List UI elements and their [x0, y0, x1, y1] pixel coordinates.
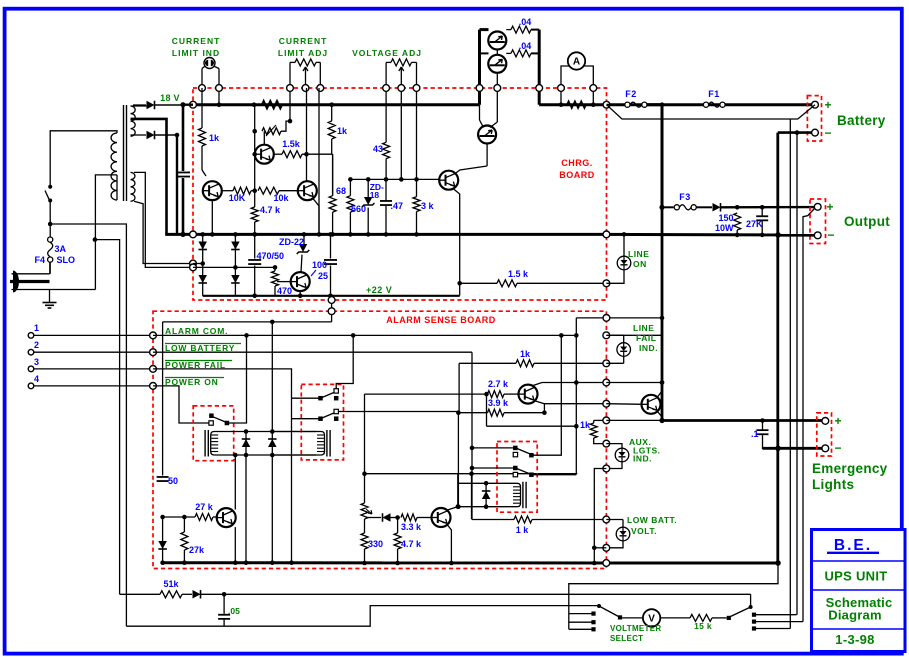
fuse F3: [662, 206, 674, 208]
voltmeter select left switch: [569, 613, 592, 615]
svg-text:51k: 51k: [163, 579, 179, 589]
input terminal 2: [28, 349, 34, 355]
svg-text:A: A: [573, 57, 580, 68]
Q5 emitter to bottom rail: [299, 291, 301, 296]
junction .1 cap: [760, 418, 765, 423]
node q11 collector edge: [603, 379, 610, 386]
transformer primary winding: [111, 133, 117, 200]
diode D13: [193, 590, 201, 599]
svg-text:.04: .04: [519, 17, 532, 27]
junction wiper-1.5k: [304, 152, 309, 157]
node ammeter right edge crossing: [590, 85, 597, 92]
wire cap bottom line: [126, 625, 224, 627]
diode D2 rectifier: [147, 131, 155, 140]
svg-text:LIMIT IND: LIMIT IND: [172, 48, 220, 58]
svg-text:4.7 k: 4.7 k: [401, 539, 422, 549]
wire line fail 1k: [458, 363, 460, 412]
node aux base edge: [603, 400, 610, 407]
wire pullup top line: [576, 317, 662, 319]
svg-text:1k: 1k: [337, 126, 348, 136]
resistor R 150 10W: [734, 213, 741, 230]
output terminal plus: [814, 203, 821, 210]
svg-text:F4: F4: [34, 255, 45, 265]
junction wiper node: [395, 515, 400, 520]
svg-text:15 k: 15 k: [694, 621, 712, 631]
secondary top lead to diode: [131, 105, 148, 107]
svg-text:B.E.: B.E.: [834, 537, 872, 554]
node rail at CHRG right edge: [603, 101, 610, 108]
resistor R 4.7k: [254, 191, 256, 207]
wire output plus sense: [803, 209, 815, 622]
junction k3 riser1: [559, 333, 564, 338]
junction Q3 base: [252, 152, 257, 157]
relay K3 coil: [522, 482, 524, 508]
junction K2 common rail: [289, 560, 294, 565]
svg-text:3A: 3A: [55, 244, 67, 254]
wire 1.5k line: [274, 153, 282, 155]
node +22V at ALARM top edge: [328, 308, 335, 315]
node aux1k bottom edge: [603, 440, 610, 447]
junction diode1 top: [244, 429, 249, 434]
node aux bottom edge: [603, 465, 610, 472]
pot right lead: [319, 62, 321, 88]
svg-text:1 k: 1 k: [516, 525, 530, 535]
emergency connector dashed box: [817, 413, 832, 456]
resistor series rail: [262, 101, 282, 108]
node input2 edge: [150, 349, 157, 356]
title block divider 1: [813, 560, 904, 562]
wire rail x254 down: [254, 105, 256, 191]
wire aux bus down: [661, 207, 664, 420]
resistor R 15k: [690, 614, 712, 621]
fuse F2: [607, 104, 625, 106]
capacitor C 27K: [761, 207, 763, 215]
transistor Q9 2N3055: [488, 55, 506, 73]
wire y426 line: [487, 425, 577, 427]
junction 560 rail: [348, 232, 353, 237]
svg-text:LOW BATT.: LOW BATT.: [627, 515, 677, 525]
junction route x364: [362, 471, 367, 476]
node lowbatt bottom edge: [603, 544, 610, 551]
junction aux return low batt: [592, 546, 597, 551]
resistor R 470: [274, 267, 276, 271]
transistor Q10 pass 2N3055: [478, 126, 496, 144]
junction bridge R top: [233, 232, 238, 237]
title block outer: [812, 530, 906, 652]
junction k3 coil bottom diode: [484, 504, 489, 509]
ammeter leads: [561, 66, 569, 105]
svg-text:18 V: 18 V: [160, 93, 180, 103]
svg-text:150: 150: [718, 213, 733, 223]
svg-text:+22 V: +22 V: [366, 285, 392, 295]
wire battery minus vertical bus: [776, 133, 779, 563]
ammeter A1: [568, 52, 585, 69]
junction pullup at main bus: [660, 316, 665, 321]
Q6 collector: [448, 474, 458, 510]
diode D3: [198, 242, 207, 250]
voltage adj wiper lead: [400, 76, 402, 179]
wire 3.9k to Q11 emitter: [504, 412, 544, 414]
pot left lead: [289, 62, 291, 121]
wire 18V riser thick: [478, 30, 481, 105]
transistor Q8 2N3055: [488, 32, 506, 50]
svg-text:+: +: [834, 414, 841, 428]
transistor Q12 aux: [606, 403, 641, 406]
primary bottom lead: [116, 175, 118, 200]
node input3 edge: [150, 366, 157, 373]
junction Q1 emitter rail: [210, 232, 215, 237]
wire x486 riser: [486, 394, 488, 426]
node vadj right at edge: [413, 85, 420, 92]
junction aux return rail: [592, 561, 597, 566]
resistor R 1k mid: [331, 105, 333, 121]
battery terminal minus: [812, 129, 819, 136]
svg-text:.05: .05: [228, 606, 240, 616]
node vadj left at edge: [383, 85, 390, 92]
junction 576-alarmcom: [574, 333, 579, 338]
capacitor C .1: [762, 421, 764, 430]
potentiometer voltage adj: [386, 61, 391, 63]
node 1.5k at board edge: [603, 280, 610, 287]
diode D11 input: [162, 517, 164, 563]
svg-text:2: 2: [34, 340, 39, 350]
diode D4: [198, 275, 207, 283]
svg-text:3: 3: [34, 357, 39, 367]
right blade: [731, 607, 751, 617]
wiper line: [368, 517, 381, 519]
junction 576-426: [574, 424, 579, 429]
resistor R 1.5k output: [460, 282, 497, 284]
junction 150 top: [735, 205, 740, 210]
ALARM SENSE board dashed outline: [153, 311, 606, 568]
ground symbol: [49, 290, 51, 303]
svg-text:LINE: LINE: [628, 249, 649, 259]
capacitor C3 100/25: [330, 234, 332, 258]
relay K3 dashed box: [497, 442, 537, 513]
svg-text:CURRENT: CURRENT: [172, 36, 221, 46]
resistor R 51k: [160, 591, 182, 598]
title block divider 2: [813, 589, 904, 591]
junction d11 rail: [160, 560, 165, 565]
relay K2 coil: [326, 430, 328, 457]
wire 3055 emitter bus down to rail: [538, 30, 541, 105]
junction F3 tap: [659, 205, 664, 210]
resistor .04 lower: [506, 52, 511, 54]
emergency terminal minus: [822, 445, 829, 452]
svg-text:SLO: SLO: [57, 255, 76, 265]
svg-text:−: −: [834, 441, 841, 455]
Q3 collector to trimmer line: [263, 131, 265, 145]
fuse F4: [49, 224, 51, 237]
wire low battery line: [153, 351, 163, 353]
node common rail at left edge: [190, 231, 197, 238]
svg-text:68: 68: [336, 186, 346, 196]
transformer T1 core: [123, 105, 125, 201]
node lamp left at edge: [199, 85, 206, 92]
trimmer resistor below rail: [262, 128, 281, 135]
resistor R 10k right: [258, 187, 279, 194]
transistor Q2: [298, 181, 317, 200]
wire battery sense diagonal from F2 node: [607, 105, 791, 119]
wire wiper down: [306, 88, 308, 154]
transistor Q6: [432, 508, 451, 527]
junction lamp-rail: [217, 102, 222, 107]
wire board rail to switch feed: [569, 563, 778, 629]
svg-text:330: 330: [368, 539, 383, 549]
resistor R 1k linefail: [516, 360, 534, 367]
Q11 emitter diagonal: [535, 401, 545, 404]
transistor Q7: [217, 508, 236, 527]
svg-text:LIMIT ADJ: LIMIT ADJ: [278, 48, 328, 58]
svg-text:−: −: [824, 126, 831, 140]
node common rail at right edge: [603, 231, 610, 238]
diode D9 relay2 clamp: [271, 322, 273, 563]
diode D6: [231, 275, 240, 283]
wire base line y179: [350, 178, 439, 180]
zener ZD-22: [302, 232, 307, 237]
wire 330 riser: [364, 474, 366, 503]
svg-text:F3: F3: [679, 192, 691, 202]
svg-text:CURRENT: CURRENT: [279, 36, 328, 46]
transistor Q11: [519, 385, 538, 404]
wire 51k line: [120, 593, 160, 595]
svg-text:−: −: [827, 228, 834, 242]
junction 3.9k line: [456, 410, 461, 415]
svg-text:25: 25: [318, 271, 328, 281]
output connector dashed box: [810, 199, 826, 244]
junction pot-right rail: [317, 232, 322, 237]
junction relay1 riser: [244, 333, 249, 338]
svg-text:3 k: 3 k: [421, 201, 435, 211]
junction trimmer left: [252, 129, 257, 134]
svg-text:10W: 10W: [715, 223, 734, 233]
junction rail-shunt left: [559, 102, 564, 107]
transistor Q1: [203, 181, 222, 200]
Q12 collector: [658, 391, 663, 397]
junction emergency minus bus: [775, 446, 781, 452]
Q1 emitter down to rail: [211, 200, 213, 234]
wire coil bottom line y454: [246, 454, 316, 456]
junction 18V node: [180, 102, 185, 107]
svg-text:V: V: [648, 614, 655, 625]
wire relay1 common up to alarm com: [229, 335, 247, 423]
wire 1k to 68 resistor: [332, 154, 334, 196]
node +22V at CHRG bottom edge: [328, 297, 335, 304]
junction main bus: [660, 102, 665, 107]
diode D12: [383, 513, 391, 522]
wire diode2 down to common: [176, 135, 178, 234]
bridge rectifier branch right: [234, 234, 236, 295]
junction zd18 rail: [366, 232, 371, 237]
node pot wiper at edge: [302, 85, 309, 92]
junction K2 riser: [351, 333, 356, 338]
junction 3k top: [414, 177, 419, 182]
wire 3055 collector branch: [480, 52, 489, 54]
junction Q4 emitter 1.5k line: [457, 281, 462, 286]
pot 330 upper: [361, 503, 368, 519]
emergency terminal plus: [822, 418, 829, 425]
diode D7 output: [713, 203, 721, 212]
capacitor C 50: [157, 476, 169, 478]
wire power fail line: [153, 369, 292, 398]
secondary lower taps to bridge: [134, 201, 193, 263]
wire switched line to sense vertical: [50, 224, 126, 626]
wire route bottom: [365, 473, 578, 475]
junction output minus bus: [775, 232, 781, 238]
wire K2 upper common left: [292, 397, 321, 399]
junction k3 sw1: [470, 446, 475, 451]
trimmer right elbow: [281, 121, 290, 131]
wire output minus: [778, 234, 814, 237]
node pullup line at board right edge: [603, 315, 610, 322]
junction 68 rail: [330, 232, 335, 237]
AC switch S1: [48, 185, 52, 189]
Q12 emitter: [658, 412, 663, 418]
common rail y234: [165, 233, 606, 236]
node board edge x497: [494, 85, 501, 92]
wire linefail line right: [606, 362, 623, 364]
wire blade to meter: [622, 617, 643, 619]
input terminal 4: [28, 383, 34, 389]
resistor R 1k aux: [593, 420, 595, 423]
battery terminal plus: [812, 101, 819, 108]
node lowbatt edge: [603, 516, 610, 523]
svg-text:SELECT: SELECT: [610, 634, 643, 643]
input terminal 1: [28, 333, 34, 339]
LED DS4 aux lights: [606, 444, 622, 449]
wire collector line to bus: [606, 382, 662, 384]
wire K3 sw1 common: [472, 447, 515, 449]
Q4 collector from Q10: [486, 144, 488, 167]
svg-text:100: 100: [312, 260, 327, 270]
input terminal 3: [28, 366, 34, 372]
wire 15k to right blade: [712, 617, 727, 619]
wire battery plus sense vertical: [789, 119, 791, 629]
wire K2 lower common left down: [292, 418, 321, 420]
wire 2.7k route: [364, 394, 366, 474]
junction k3 sw2: [470, 466, 475, 471]
relay K3 switch2: [513, 466, 518, 471]
junction 10k-10k: [252, 188, 257, 193]
wire input 2: [34, 351, 153, 353]
relay K2 upper switch: [318, 396, 323, 401]
svg-text:LINE: LINE: [633, 323, 654, 333]
wire K2 upper NO up to alarm com: [336, 335, 353, 388]
resistor R 27k upper: [195, 514, 213, 521]
left blade: [597, 604, 601, 608]
resistor R 3.9k: [458, 412, 487, 414]
voltmeter V1: [643, 609, 660, 626]
output terminal minus: [814, 232, 821, 239]
AC plug: [13, 271, 19, 293]
relay K2 dashed box: [301, 384, 343, 460]
wire alarm com line: [153, 334, 576, 336]
neutral wire to sense: [93, 237, 98, 242]
relay K1 switch: [209, 413, 214, 418]
junction feed-relay riser: [270, 320, 275, 325]
junction q7 rail: [233, 560, 238, 565]
svg-text:ALARM SENSE BOARD: ALARM SENSE BOARD: [386, 315, 496, 325]
resistor R 2.7k: [488, 391, 505, 398]
wire right blade up to 51k line: [750, 594, 752, 607]
Q7 collector up to coil line: [234, 455, 236, 510]
svg-text:27k: 27k: [189, 545, 205, 555]
junction 50 line: [160, 515, 165, 520]
Q2 emitter to rail: [313, 199, 319, 235]
node pot left at edge: [287, 85, 294, 92]
secondary mid lead to diode 2: [131, 134, 147, 136]
wire 50cap riser: [162, 322, 164, 476]
wire route up x458: [457, 412, 459, 507]
svg-text:50: 50: [168, 476, 178, 486]
svg-text:+: +: [826, 200, 833, 214]
svg-text:ZD-22: ZD-22: [279, 237, 304, 247]
junction 560 top: [348, 177, 353, 182]
svg-text:1k: 1k: [209, 133, 220, 143]
plug hot prong to fuse: [12, 273, 50, 275]
battery connector dashed box: [807, 96, 821, 141]
Q11 collector up: [533, 383, 606, 386]
junction coil bottom x235: [233, 453, 238, 458]
junction rail x331: [329, 102, 334, 107]
fuse F1: [703, 102, 708, 107]
svg-text:1k: 1k: [580, 420, 591, 430]
resistor R 4.7k low: [397, 518, 399, 534]
svg-text:IND.: IND.: [639, 343, 658, 353]
resistor R 330: [364, 519, 366, 533]
svg-text:4: 4: [34, 374, 39, 384]
svg-text:470/50: 470/50: [257, 251, 285, 261]
Q2 collector up: [306, 154, 308, 181]
voltmeter select right switch: [752, 613, 756, 617]
junction 43-.47: [384, 177, 389, 182]
wire low battery riser: [471, 352, 473, 519]
alarm board bottom rail: [163, 561, 607, 564]
LED DS2 line on: [622, 232, 627, 237]
resistor shunt on rail: [567, 101, 586, 108]
junction cap common: [180, 232, 185, 237]
transistor Q3: [255, 145, 274, 164]
resistor R 43: [385, 141, 387, 143]
junction q12 coll: [660, 380, 665, 385]
svg-text:10k: 10k: [273, 193, 289, 203]
resistor .04 upper: [506, 29, 511, 31]
plug neutral prong: [12, 289, 96, 291]
transformer secondary upper winding: [131, 106, 136, 136]
junction 27k rail: [182, 560, 187, 565]
voltage adj right lead: [416, 62, 418, 196]
lamp left lead: [202, 67, 205, 69]
svg-text:3.9 k: 3.9 k: [488, 398, 509, 408]
junction coil bottom x273: [270, 453, 275, 458]
svg-text:.47: .47: [391, 201, 404, 211]
wire +22V down to alarm board: [331, 296, 333, 322]
LED DS5 low batt: [606, 519, 623, 521]
junction rail minus bus: [775, 560, 781, 566]
node ammeter left edge crossing: [558, 85, 565, 92]
capacitor C2 470/50: [254, 234, 256, 258]
lamp right lead: [215, 67, 220, 69]
wire input 3: [34, 368, 153, 370]
junction 27k divider: [182, 515, 187, 520]
svg-text:.1: .1: [751, 429, 759, 439]
svg-text:.04: .04: [519, 41, 532, 51]
wire to voltmeter row: [224, 606, 597, 627]
diode D10 relay3: [485, 483, 487, 506]
junction 576-382: [574, 380, 579, 385]
svg-text:1k: 1k: [520, 349, 531, 359]
svg-text:VOLT.: VOLT.: [631, 526, 657, 536]
